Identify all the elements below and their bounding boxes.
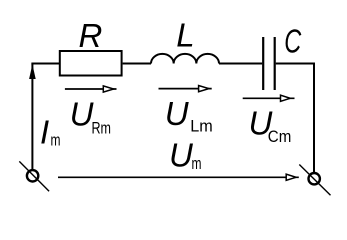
svg-text:Rm: Rm (92, 119, 112, 137)
svg-text:U: U (165, 95, 189, 132)
wire right vertical (313, 63, 315, 173)
svg-text:C: C (284, 22, 302, 59)
arrow U_Lm (159, 86, 212, 92)
svg-text:U: U (169, 136, 193, 173)
wire inductor to capacitor (219, 63, 262, 65)
terminal right (309, 173, 320, 184)
resistor R (60, 51, 122, 76)
current arrow Im (filled) (29, 64, 36, 79)
svg-text:m: m (192, 155, 202, 173)
svg-text:I: I (40, 114, 49, 151)
svg-text:m: m (51, 132, 61, 150)
wire capacitor to right corner (276, 63, 314, 65)
terminal left (27, 170, 38, 181)
terminal left slash (19, 161, 49, 191)
wire top-left horizontal (31, 63, 59, 65)
svg-text:R: R (79, 17, 103, 54)
capacitor C plate left (262, 37, 264, 90)
wire resistor to inductor (123, 63, 151, 65)
svg-text:Lm: Lm (190, 118, 213, 136)
wire left vertical (31, 64, 33, 170)
capacitor C plate right (274, 37, 276, 90)
terminal right slash (299, 165, 330, 196)
arrow U_Rm (65, 86, 117, 92)
svg-text:L: L (176, 17, 194, 54)
arrow U_m (bottom) (58, 174, 299, 180)
svg-text:U: U (70, 96, 94, 133)
arrow U_Cm (243, 95, 295, 101)
svg-text:Cm: Cm (268, 128, 292, 146)
inductor L (151, 54, 219, 64)
